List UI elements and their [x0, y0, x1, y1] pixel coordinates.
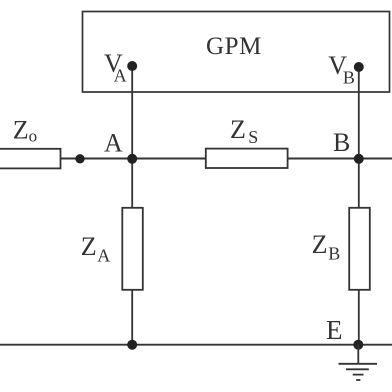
node on ground rail below ZA [127, 340, 137, 350]
svg-text:A: A [114, 66, 127, 86]
ground symbol bar 1 [339, 363, 378, 365]
node A junction dot [127, 154, 137, 164]
svg-text:o: o [29, 127, 37, 146]
svg-text:Z: Z [312, 230, 328, 259]
resistor Zo [0, 149, 61, 169]
svg-text:A: A [104, 129, 123, 158]
wire ZB bottom to ground rail [358, 290, 360, 345]
svg-text:B: B [333, 128, 350, 157]
svg-text:E: E [326, 315, 343, 345]
svg-text:A: A [97, 246, 110, 266]
wire VB to node B to ZB [358, 67, 360, 209]
ground symbol bar 2 [346, 368, 369, 370]
svg-text:Z: Z [81, 232, 97, 261]
svg-text:Z: Z [230, 115, 246, 144]
resistor ZS [206, 149, 288, 168]
wire ZA bottom to ground rail [131, 290, 133, 345]
wire VA to node A to ZA [131, 66, 133, 209]
ground symbol bar 3 [353, 374, 364, 376]
svg-text:B: B [343, 68, 355, 88]
wire bottom ground rail E [0, 344, 392, 346]
svg-text:GPM: GPM [206, 33, 262, 60]
resistor ZA [122, 208, 143, 290]
svg-text:Z: Z [13, 115, 29, 144]
node E junction dot [353, 340, 363, 350]
wire main horizontal rail right (ZS to edge) [288, 158, 392, 160]
svg-text:S: S [248, 127, 258, 147]
wire main horizontal rail left (Zo to ZS) [60, 158, 206, 160]
resistor ZB [349, 208, 370, 290]
junction dot between Zo and node A [75, 154, 84, 163]
ground symbol bar 4 [356, 379, 360, 381]
node B junction dot [354, 154, 364, 164]
node VA terminal dot [127, 61, 137, 71]
ground stem wire [357, 345, 359, 364]
GPM box U1 [83, 12, 390, 93]
node VB terminal dot [354, 62, 364, 72]
svg-text:B: B [328, 244, 340, 264]
